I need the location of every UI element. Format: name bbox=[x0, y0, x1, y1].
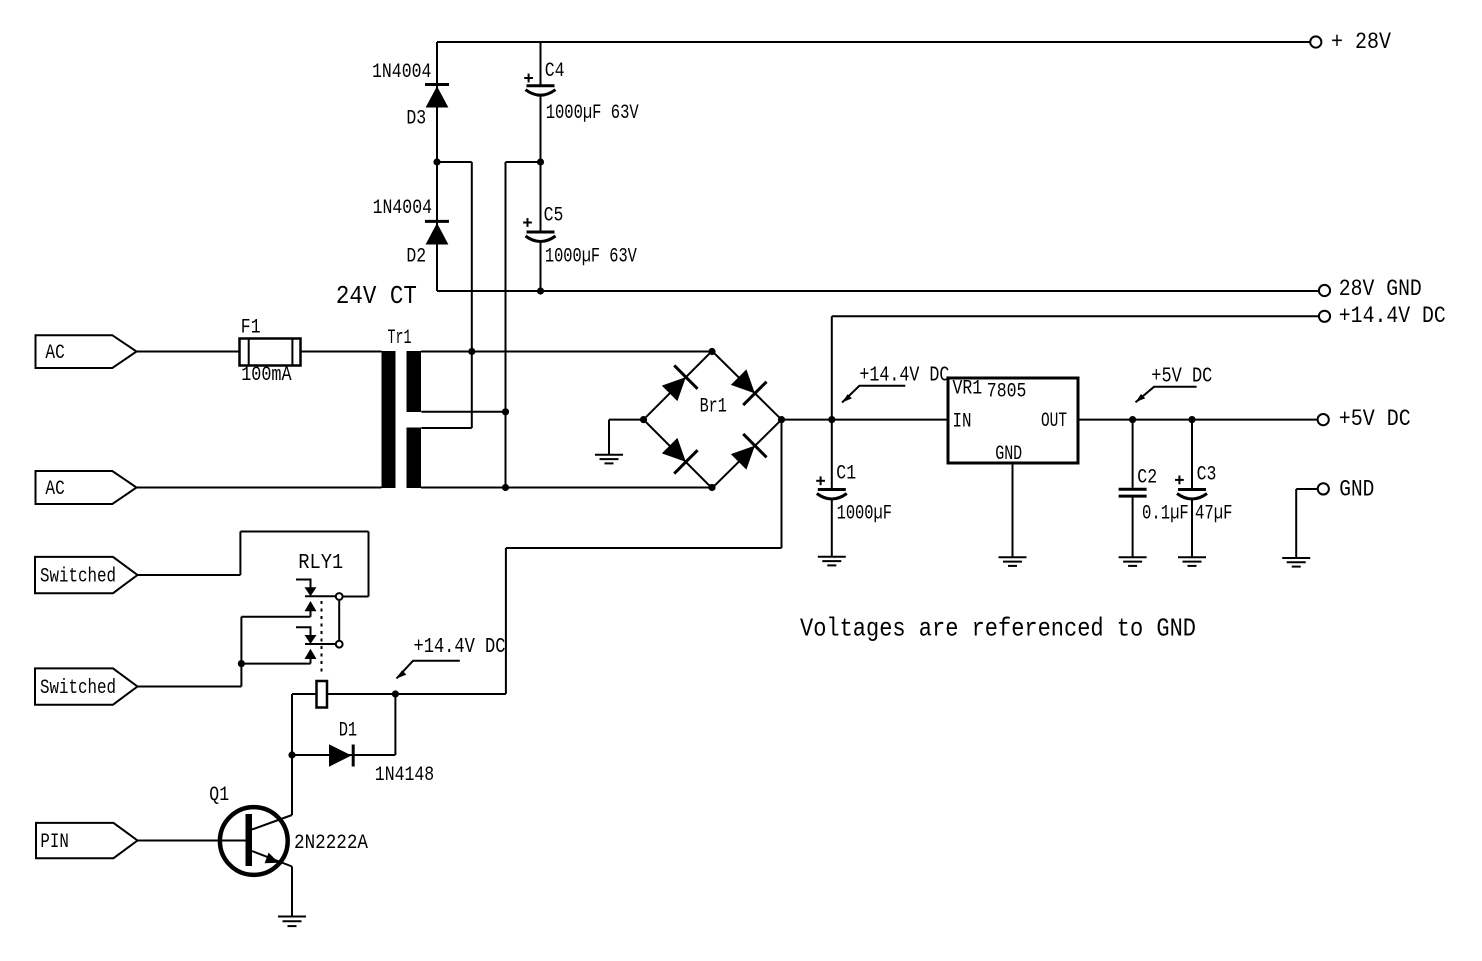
wire bridge right to VR1 bbox=[782, 419, 949, 421]
diode Br1 top-right bbox=[727, 365, 767, 405]
wire switched2 riser bbox=[240, 617, 242, 687]
svg-text:VR1: VR1 bbox=[953, 377, 983, 400]
ground bridge minus bbox=[595, 455, 623, 464]
wire D3 branch vertical bbox=[436, 42, 438, 162]
node junction D3-D2 bbox=[433, 158, 440, 165]
wire vertical x505.5 to bottom bbox=[421, 162, 505, 488]
fuse F1 bbox=[240, 339, 301, 366]
wire 28V GND rail bbox=[437, 290, 1319, 292]
node secondary bottom bbox=[502, 484, 509, 491]
svg-text:IN: IN bbox=[953, 411, 972, 434]
node coil right junction bbox=[392, 690, 399, 697]
wire PIN to base bbox=[138, 840, 246, 842]
svg-text:+14.4V DC: +14.4V DC bbox=[859, 364, 949, 387]
svg-text:D2: D2 bbox=[406, 246, 426, 269]
wire +28V top rail bbox=[437, 41, 1310, 43]
wire AC2 to primary bbox=[137, 487, 382, 489]
svg-text:C1: C1 bbox=[836, 462, 856, 485]
svg-text:28V GND: 28V GND bbox=[1339, 276, 1422, 302]
input flag AC1 bbox=[36, 335, 137, 368]
svg-text:D1: D1 bbox=[339, 719, 358, 742]
node +14.4V DC terminal bbox=[1319, 311, 1330, 322]
svg-text:1000µF 63V: 1000µF 63V bbox=[545, 246, 637, 269]
transformer Tr1 primary bbox=[382, 351, 396, 488]
svg-text:Switched: Switched bbox=[40, 565, 116, 588]
svg-text:1N4148: 1N4148 bbox=[375, 764, 434, 787]
diode Br1 bottom-left bbox=[658, 434, 698, 474]
svg-text:1N4004: 1N4004 bbox=[372, 61, 431, 84]
svg-text:Tr1: Tr1 bbox=[388, 327, 412, 350]
node +5V DC terminal bbox=[1318, 414, 1329, 425]
capacitor C1 bbox=[816, 476, 847, 499]
svg-text:+5V DC: +5V DC bbox=[1339, 406, 1411, 432]
input flag PIN bbox=[36, 823, 138, 858]
node center tap upper bbox=[502, 408, 509, 415]
node bridge left bbox=[640, 416, 647, 423]
ground C3 bbox=[1178, 557, 1206, 566]
regulator VR1 box bbox=[948, 378, 1078, 463]
node C3 junction bbox=[1188, 416, 1195, 423]
node 28V GND junction C5 bbox=[537, 287, 544, 294]
wire GND terminal to ground bbox=[1296, 489, 1318, 558]
node bridge bottom bbox=[708, 484, 715, 491]
wire D1 cathode up to coil junction bbox=[394, 694, 396, 755]
input flag AC2 bbox=[36, 471, 137, 504]
wire junction row y162 bbox=[437, 161, 541, 163]
relay RLY1 pole1 hook bbox=[296, 580, 317, 597]
svg-text:F1: F1 bbox=[241, 317, 261, 340]
node D1 anode junction bbox=[288, 751, 295, 758]
svg-text:+ 28V: + 28V bbox=[1331, 29, 1391, 55]
ground Q1 emitter bbox=[278, 917, 306, 927]
svg-text:100mA: 100mA bbox=[241, 364, 291, 387]
wire C2 vertical bbox=[1132, 420, 1134, 558]
capacitor C5 bbox=[523, 218, 555, 241]
svg-text:1N4004: 1N4004 bbox=[373, 197, 432, 220]
diode Br1 bottom-right bbox=[727, 434, 767, 474]
node +14.4V junction C1 bbox=[828, 416, 835, 423]
annotation arrow +14.4V DC at C1 bbox=[842, 386, 905, 403]
transformer Tr1 secondary upper bbox=[407, 351, 422, 412]
relay RLY1 coil bbox=[317, 681, 328, 708]
ground VR1 bbox=[999, 557, 1027, 566]
wire +14.4V through coil bbox=[292, 693, 506, 695]
wire between relay contacts bbox=[338, 601, 340, 640]
svg-text:RLY1: RLY1 bbox=[298, 552, 343, 575]
diode Br1 top-left bbox=[658, 365, 698, 405]
svg-text:Br1: Br1 bbox=[700, 395, 727, 418]
svg-text:Q1: Q1 bbox=[209, 784, 229, 807]
capacitor C2 bbox=[1119, 489, 1147, 496]
node junction C4-C5 bbox=[537, 158, 544, 165]
relay RLY1 coil link dashed bbox=[321, 601, 323, 676]
wire pole2 to switched2 riser bbox=[241, 663, 310, 665]
input flag Switched2 bbox=[35, 668, 138, 704]
svg-text:2N2222A: 2N2222A bbox=[294, 832, 368, 855]
diode D3 bbox=[425, 85, 449, 108]
transformer Tr1 secondary lower bbox=[407, 428, 422, 489]
node GND terminal bbox=[1318, 483, 1329, 494]
wire +14.4V DC rail bbox=[832, 315, 1319, 317]
wire secondary bottom to bridge bbox=[421, 487, 712, 489]
svg-text:47µF: 47µF bbox=[1195, 502, 1233, 525]
relay RLY1 pole1 contact arm bbox=[305, 596, 336, 617]
wire D2 branch vertical bbox=[436, 162, 438, 291]
svg-text:GND: GND bbox=[1339, 476, 1374, 502]
svg-text:AC: AC bbox=[45, 478, 64, 501]
wire VR1 OUT to +5V terminal bbox=[1078, 419, 1318, 421]
svg-text:AC: AC bbox=[45, 342, 64, 365]
ground GND terminal bbox=[1282, 558, 1310, 567]
wire +14.4V vertical through C1 bbox=[831, 316, 833, 557]
svg-text:Switched: Switched bbox=[40, 677, 116, 700]
ground C2 bbox=[1119, 557, 1147, 566]
wire secondary top to bridge bbox=[421, 351, 712, 353]
svg-text:PIN: PIN bbox=[40, 831, 68, 854]
annotation arrow +14.4V DC at relay bbox=[397, 661, 460, 679]
svg-text:24V CT: 24V CT bbox=[336, 281, 417, 311]
wire Switched2 bbox=[138, 686, 242, 688]
ground C1 bbox=[818, 557, 846, 566]
bridge rectifier Br1 frame bbox=[644, 351, 782, 488]
transistor Q1 bbox=[220, 807, 292, 875]
node C2 junction bbox=[1129, 416, 1136, 423]
wire Q1 emitter to ground bbox=[291, 867, 293, 917]
wire bridge right down loop bbox=[506, 420, 782, 694]
annotation arrow +5V DC bbox=[1136, 387, 1197, 403]
node 28V GND terminal bbox=[1319, 285, 1330, 296]
svg-text:Voltages are referenced to GND: Voltages are referenced to GND bbox=[800, 614, 1196, 644]
node switched2 riser junction bbox=[238, 660, 245, 667]
svg-text:C5: C5 bbox=[544, 205, 564, 228]
svg-text:GND: GND bbox=[995, 443, 1022, 466]
node bridge top bbox=[708, 348, 715, 355]
diode D2 bbox=[425, 221, 449, 244]
capacitor C4 bbox=[524, 74, 555, 96]
svg-text:1000µF: 1000µF bbox=[837, 503, 892, 526]
wire VR1 GND pin bbox=[1012, 463, 1014, 557]
wire C5 branch vertical bbox=[540, 162, 542, 291]
svg-text:+14.4V DC: +14.4V DC bbox=[414, 636, 506, 659]
svg-text:7805: 7805 bbox=[987, 381, 1027, 404]
svg-text:0.1µF: 0.1µF bbox=[1142, 502, 1189, 525]
svg-text:D3: D3 bbox=[406, 108, 426, 131]
wire bridge left to ground bbox=[609, 420, 644, 455]
svg-text:1000µF 63V: 1000µF 63V bbox=[546, 102, 639, 125]
diode D1 bbox=[329, 744, 353, 766]
svg-text:C4: C4 bbox=[545, 60, 565, 83]
wire Switched1 loop to relay contact bbox=[138, 532, 369, 597]
svg-text:OUT: OUT bbox=[1041, 410, 1067, 433]
relay RLY1 pole2 contact arm bbox=[305, 644, 336, 664]
wire C3 vertical bbox=[1191, 420, 1193, 558]
wire vertical x471.8 to center tap lower bbox=[421, 162, 472, 428]
node bridge right bbox=[778, 416, 785, 423]
node secondary top tap bbox=[468, 348, 475, 355]
relay RLY1 pole2 hook bbox=[296, 627, 317, 644]
input flag Switched1 bbox=[35, 557, 138, 593]
wire coil left down to D1 bbox=[291, 694, 293, 815]
relay RLY1 fixed contact 1 bbox=[336, 593, 343, 600]
svg-text:+14.4V DC: +14.4V DC bbox=[1339, 303, 1446, 329]
wire fuse to transformer bbox=[301, 351, 382, 353]
wire D1 row bbox=[292, 754, 395, 756]
wire C4 branch vertical bbox=[540, 42, 542, 162]
relay RLY1 fixed contact 2 bbox=[336, 641, 343, 648]
svg-text:C3: C3 bbox=[1197, 463, 1217, 486]
svg-text:+5V DC: +5V DC bbox=[1151, 366, 1212, 389]
capacitor C3 bbox=[1175, 476, 1207, 500]
wire AC1 to fuse bbox=[137, 351, 240, 353]
wire pole1 to switched2 riser bbox=[241, 616, 310, 618]
node +28V terminal bbox=[1310, 36, 1321, 47]
svg-text:C2: C2 bbox=[1137, 466, 1157, 489]
